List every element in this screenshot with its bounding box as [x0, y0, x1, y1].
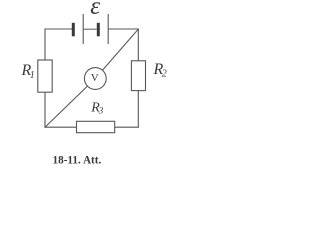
battery cell1 negative plate (thick short)	[72, 23, 75, 37]
wire bottom-left segment	[45, 126, 77, 128]
resistor R2 box	[131, 61, 145, 91]
svg-text:2: 2	[162, 69, 167, 80]
wire left upper	[44, 29, 46, 61]
battery cell1 positive plate (thin long)	[82, 14, 84, 44]
svg-text:V: V	[91, 72, 99, 84]
svg-text:18-11. Att.: 18-11. Att.	[53, 154, 102, 166]
wire diagonal upper (top-right corner to voltmeter)	[95, 29, 138, 79]
svg-text:ε: ε	[90, 0, 100, 20]
wire diagonal lower (voltmeter to bottom-left corner)	[45, 79, 96, 128]
wire right upper	[137, 29, 139, 61]
wire battery middle segment	[83, 28, 97, 30]
battery cell2 negative plate (thick short)	[97, 23, 100, 37]
resistor R1 box	[38, 60, 52, 92]
wire left lower	[44, 92, 46, 128]
wire right lower	[137, 91, 139, 128]
voltmeter V1 body	[84, 68, 106, 90]
wire bottom-right segment	[115, 126, 139, 128]
svg-text:3: 3	[98, 106, 104, 116]
wire top-left segment	[45, 28, 72, 30]
svg-text:1: 1	[30, 70, 35, 81]
wire top-right segment	[108, 28, 139, 30]
resistor R3 box	[77, 121, 115, 132]
battery cell2 positive plate (thin long)	[107, 14, 109, 44]
